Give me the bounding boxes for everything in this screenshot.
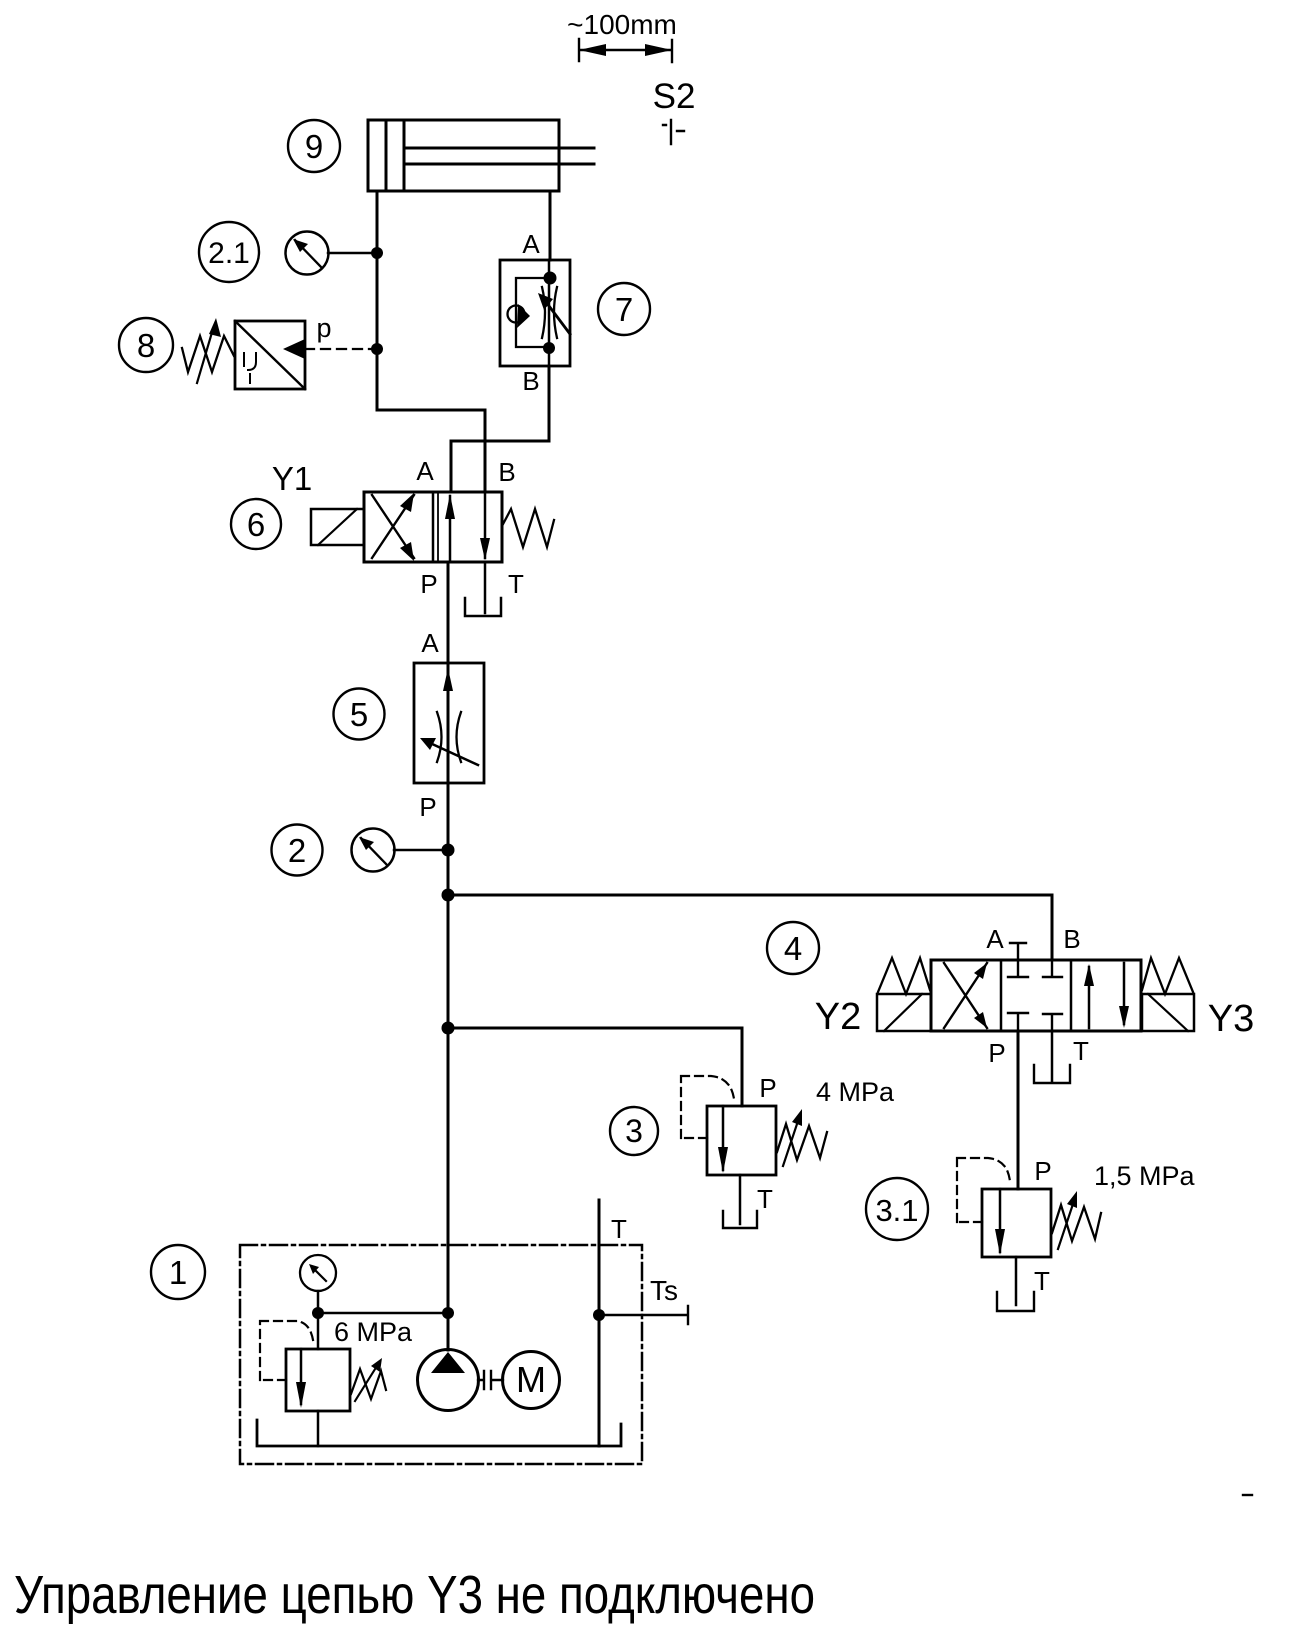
wire branch to relief 3 xyxy=(448,1028,742,1106)
node gauge tap xyxy=(312,1307,324,1319)
wire relief 3.1 to tank xyxy=(1015,1257,1018,1305)
spring left of valve 4 xyxy=(878,958,930,994)
svg-text:p: p xyxy=(316,313,331,343)
svg-text:3.1: 3.1 xyxy=(875,1193,918,1228)
svg-text:8: 8 xyxy=(137,327,155,364)
svg-text:B: B xyxy=(498,457,515,487)
label circle 2.1 xyxy=(199,222,259,282)
svg-text:T: T xyxy=(757,1184,773,1214)
svg-text:6: 6 xyxy=(247,506,265,543)
svg-text:T: T xyxy=(1034,1266,1050,1296)
svg-text:T: T xyxy=(508,569,524,599)
wire flow control B down and left to valve6 A xyxy=(451,366,549,492)
flow control valve 7 xyxy=(500,229,570,396)
wire valve6 T to tank xyxy=(484,562,487,613)
node gauge 2 tap xyxy=(442,844,455,857)
solenoid Y1 xyxy=(272,460,364,545)
node pressure switch tap xyxy=(371,343,383,355)
main pressure line xyxy=(447,562,450,1350)
wire tank return T xyxy=(598,1200,601,1446)
wire elbow to valve6 B xyxy=(377,410,485,492)
spring of switch 8 xyxy=(182,318,234,383)
svg-text:S2: S2 xyxy=(653,77,696,116)
svg-text:6 MPa: 6 MPa xyxy=(334,1317,413,1347)
svg-text:A: A xyxy=(421,628,439,658)
sensor S2 xyxy=(653,77,696,144)
svg-text:9: 9 xyxy=(305,128,323,165)
svg-text:Управление цепью Y3 не подключ: Управление цепью Y3 не подключено xyxy=(14,1565,815,1625)
stray mark xyxy=(1243,1494,1252,1496)
svg-text:1: 1 xyxy=(169,1254,187,1291)
svg-text:P: P xyxy=(420,569,437,599)
wire relief 3 to tank xyxy=(739,1175,742,1224)
wire Ts stub xyxy=(599,1306,688,1324)
wire relief drain xyxy=(317,1411,320,1446)
gauge in power unit xyxy=(300,1255,336,1349)
spring right of valve 4 xyxy=(1142,958,1193,994)
svg-text:2.1: 2.1 xyxy=(208,237,250,270)
tank under relief 3 xyxy=(723,1211,757,1228)
label circle 8 xyxy=(119,318,173,372)
svg-text:2: 2 xyxy=(288,832,306,869)
label circle 4 xyxy=(767,922,819,974)
directional valve 6 Y1 xyxy=(364,456,524,599)
label circle 9 xyxy=(288,120,340,172)
svg-text:3: 3 xyxy=(625,1113,643,1149)
gauge 2 xyxy=(352,829,443,872)
label circle 6 xyxy=(231,499,281,549)
svg-text:B: B xyxy=(522,366,539,396)
wire valve4 P down to relief 3.1 xyxy=(1017,1031,1020,1189)
tank under relief 3.1 xyxy=(997,1292,1034,1311)
svg-text:4: 4 xyxy=(784,930,802,967)
dimension ~100mm xyxy=(567,9,677,62)
svg-text:A: A xyxy=(522,229,540,259)
relief valve 6 MPa xyxy=(260,1317,413,1411)
wire cylinder right port to flow control A xyxy=(549,191,552,260)
pump xyxy=(418,1350,479,1411)
svg-text:M: M xyxy=(516,1359,546,1400)
directional valve 4 Y2/Y3 xyxy=(931,924,1141,1068)
label circle 2 xyxy=(272,825,323,876)
svg-text:P: P xyxy=(988,1038,1005,1068)
wire branch to valve 4 xyxy=(448,895,1052,960)
svg-text:T: T xyxy=(1073,1036,1089,1066)
svg-text:B: B xyxy=(1063,924,1080,954)
cylinder 9 xyxy=(368,120,594,191)
svg-text:Y2: Y2 xyxy=(815,996,861,1038)
svg-text:Y3: Y3 xyxy=(1208,998,1254,1040)
svg-text:A: A xyxy=(416,456,434,486)
gauge 2.1 xyxy=(286,232,372,275)
solenoid Y3 xyxy=(1142,994,1254,1040)
pressure switch 8 xyxy=(235,313,372,389)
label circle 7 xyxy=(598,283,650,335)
node branch to valve 4 xyxy=(442,889,455,902)
svg-text:P: P xyxy=(1034,1156,1051,1186)
wire valve4 T to tank xyxy=(1051,1031,1054,1081)
label circle 1 xyxy=(151,1245,205,1299)
motor M xyxy=(503,1352,560,1409)
coupling pump-motor xyxy=(478,1371,503,1389)
tank under valve 4 T xyxy=(1034,1065,1070,1083)
tank of power unit xyxy=(257,1420,621,1446)
solenoid Y2 xyxy=(815,994,931,1038)
label circle 3 xyxy=(610,1107,658,1155)
svg-text:Ts: Ts xyxy=(650,1275,678,1306)
relief valve 3.1 xyxy=(957,1156,1196,1296)
wire cylinder left port down xyxy=(376,191,379,410)
label circle 5 xyxy=(334,689,385,740)
svg-text:~100mm: ~100mm xyxy=(567,9,677,40)
svg-text:A: A xyxy=(986,924,1004,954)
tank under valve 6 xyxy=(465,598,501,616)
svg-text:1,5 MPa: 1,5 MPa xyxy=(1094,1161,1196,1191)
svg-text:T: T xyxy=(611,1214,627,1244)
svg-text:P: P xyxy=(759,1073,776,1103)
svg-text:5: 5 xyxy=(350,696,368,733)
relief valve 3 xyxy=(681,1073,895,1214)
throttle valve 5 xyxy=(414,628,484,822)
svg-text:P: P xyxy=(419,792,436,822)
node branch to relief 3 xyxy=(442,1022,455,1035)
svg-text:4 MPa: 4 MPa xyxy=(816,1077,895,1107)
svg-text:Y1: Y1 xyxy=(272,460,312,497)
node pump line tap xyxy=(442,1307,454,1319)
node gauge 2.1 tap xyxy=(371,247,383,259)
power unit 1 boundary xyxy=(240,1245,642,1464)
spring of valve 6 xyxy=(502,509,554,547)
svg-text:7: 7 xyxy=(615,291,633,328)
label circle 3.1 xyxy=(866,1178,928,1240)
wire gauge tap to pump line xyxy=(318,1312,448,1315)
node Ts tap xyxy=(593,1309,605,1321)
